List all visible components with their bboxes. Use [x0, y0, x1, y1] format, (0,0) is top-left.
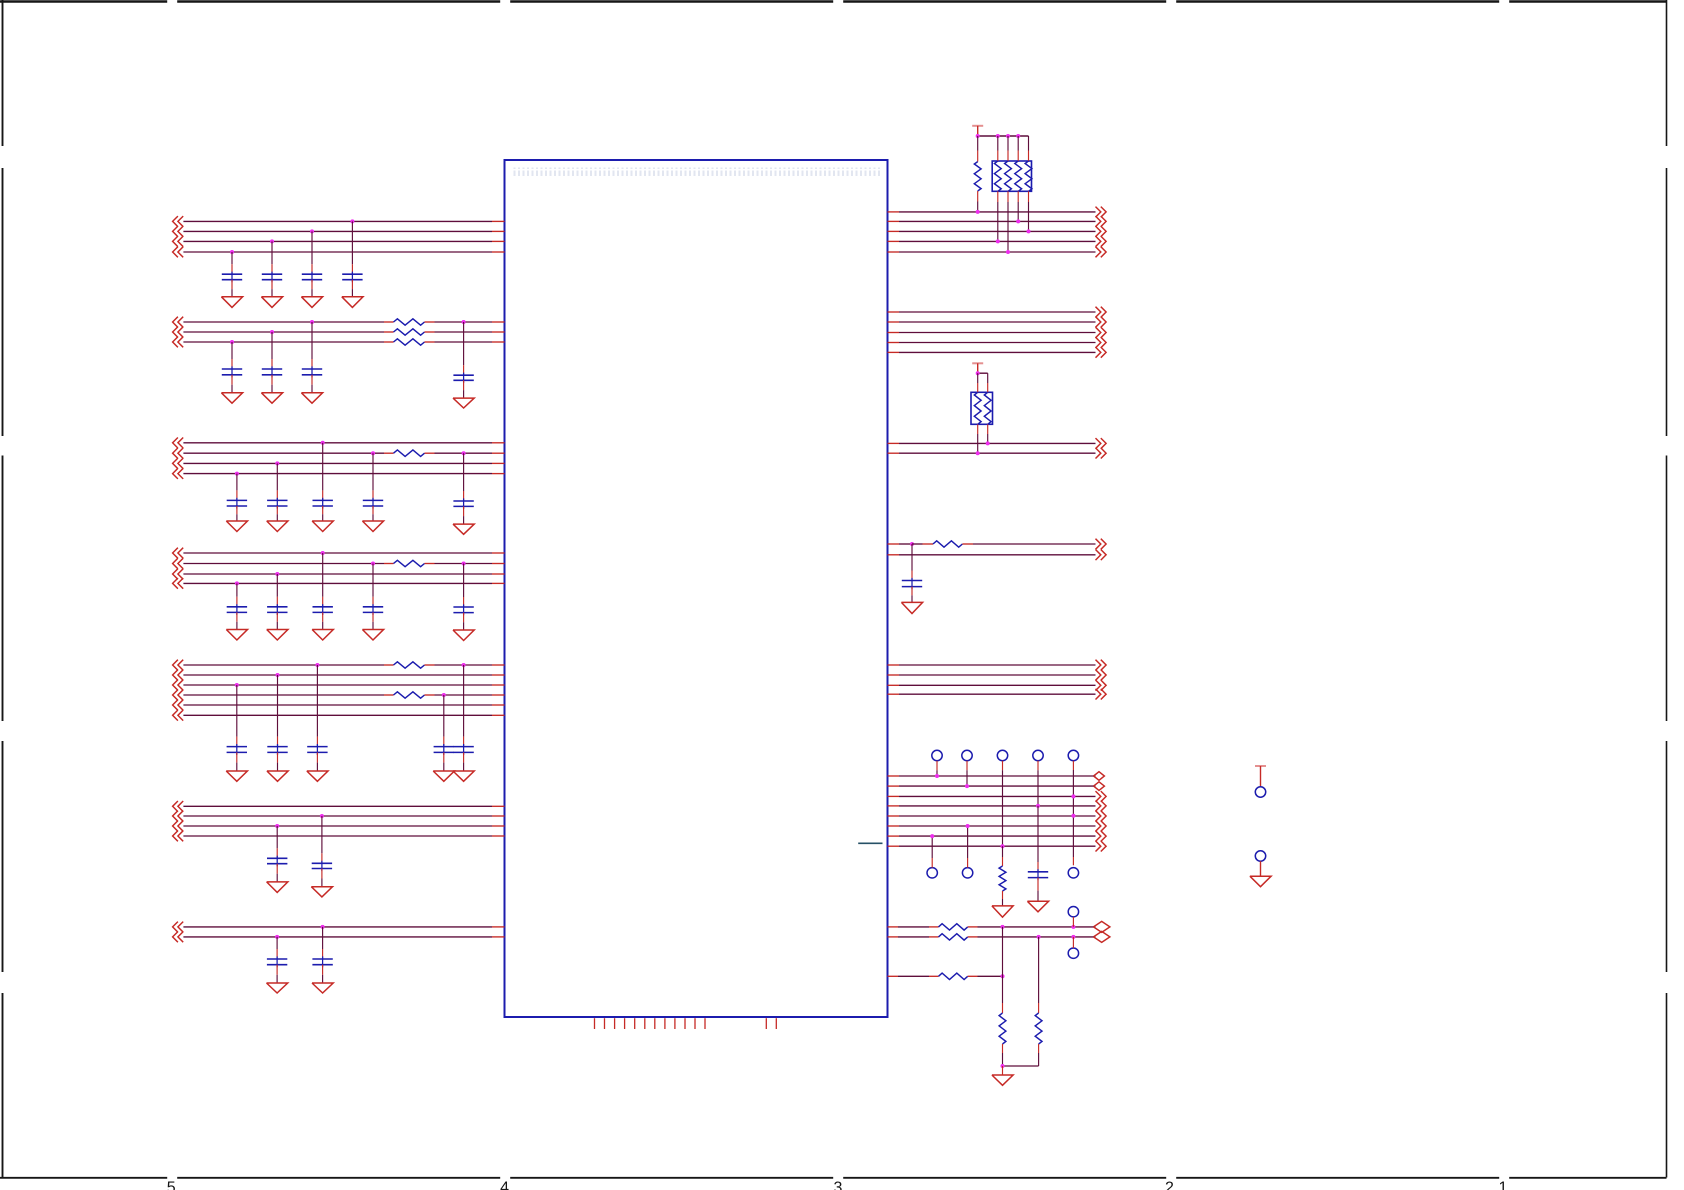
svg-text:5: 5	[167, 1180, 176, 1190]
svg-text:4: 4	[500, 1180, 509, 1190]
svg-text:1: 1	[1499, 1180, 1508, 1190]
svg-text:2: 2	[1165, 1180, 1174, 1190]
svg-text:3: 3	[834, 1180, 843, 1190]
